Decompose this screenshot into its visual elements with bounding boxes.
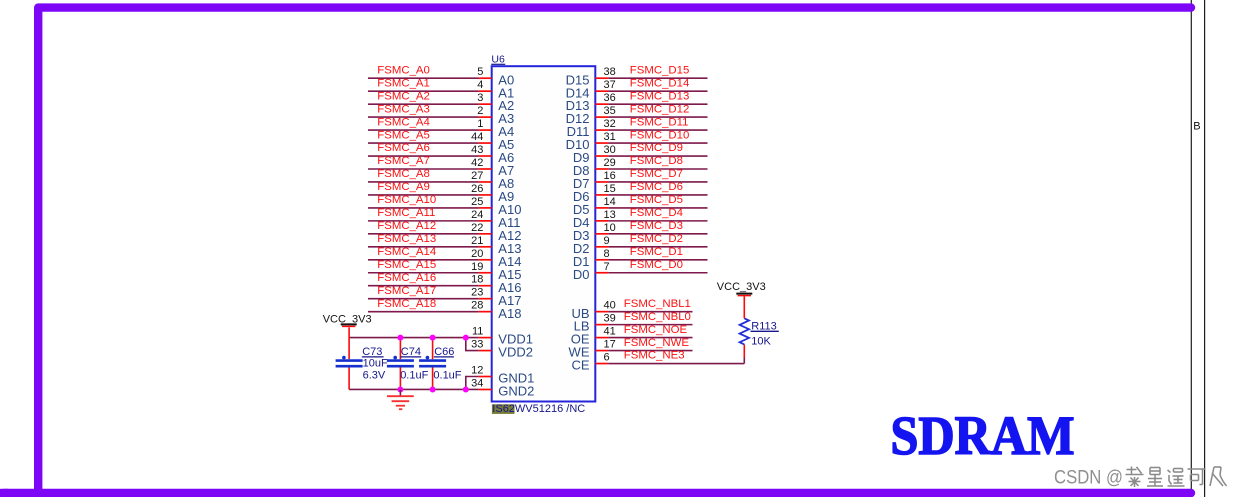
svg-text:GND2: GND2 [498, 384, 534, 399]
pin 21 stub (A13) [479, 246, 492, 248]
pin 6 stub (CE) [595, 363, 608, 365]
svg-text:FSMC_A14: FSMC_A14 [377, 246, 436, 258]
pin 7 stub (D0) [595, 272, 608, 274]
pin 10 stub (D3) [595, 233, 608, 235]
svg-text:26: 26 [471, 183, 483, 195]
svg-text:37: 37 [604, 79, 616, 91]
pin 29 stub (D8) [595, 168, 608, 170]
svg-text:FSMC_NWE: FSMC_NWE [624, 337, 690, 349]
wire net FSMC_D4 [608, 220, 707, 222]
svg-text:FSMC_D9: FSMC_D9 [630, 142, 683, 154]
svg-text:FSMC_D7: FSMC_D7 [630, 168, 683, 180]
ground symbol [399, 389, 401, 395]
wire net FSMC_D13 [608, 103, 707, 105]
pin 13 stub (D4) [595, 220, 608, 222]
svg-text:30: 30 [604, 144, 616, 156]
watermark CJK glyphs [1127, 469, 1137, 471]
pin 26 stub (A9) [479, 194, 492, 196]
svg-text:44: 44 [471, 131, 483, 143]
svg-text:FSMC_D1: FSMC_D1 [630, 246, 683, 258]
pin 20 stub (A14) [479, 259, 492, 261]
pin 37 stub (D14) [595, 90, 608, 92]
svg-text:FSMC_NBL0: FSMC_NBL0 [624, 311, 691, 323]
svg-text:11: 11 [472, 326, 483, 338]
pin 2 stub (A3) [479, 116, 492, 118]
resistor R113 [743, 344, 745, 357]
wire net FSMC_D7 [608, 181, 707, 183]
pin 15 stub (D6) [595, 194, 608, 196]
pin 35 stub (D12) [595, 116, 608, 118]
svg-text:FSMC_A0: FSMC_A0 [377, 64, 430, 76]
svg-text:5: 5 [477, 66, 483, 78]
svg-text:FSMC_D15: FSMC_D15 [630, 64, 690, 76]
svg-text:FSMC_A15: FSMC_A15 [377, 259, 436, 271]
pin 44 stub (A5) [479, 142, 492, 144]
svg-text:FSMC_D11: FSMC_D11 [630, 116, 689, 128]
pin 36 stub (D13) [595, 103, 608, 105]
pin 1 stub (A4) [479, 129, 492, 131]
pin 14 stub (D5) [595, 207, 608, 209]
svg-text:19: 19 [471, 261, 483, 273]
wire net FSMC_A14 [368, 259, 479, 261]
svg-text:38: 38 [604, 66, 616, 78]
svg-text:FSMC_A3: FSMC_A3 [377, 103, 430, 115]
svg-text:FSMC_A18: FSMC_A18 [377, 298, 436, 310]
svg-text:41: 41 [604, 326, 616, 338]
pin 12 stub (GND1) [479, 376, 492, 378]
wire net FSMC_A9 [368, 194, 479, 196]
svg-text:31: 31 [604, 131, 616, 143]
svg-text:FSMC_A2: FSMC_A2 [377, 90, 430, 102]
svg-text:13: 13 [604, 209, 616, 221]
wire net FSMC_A3 [368, 116, 479, 118]
pin 42 stub (A7) [479, 168, 492, 170]
svg-text:FSMC_A1: FSMC_A1 [377, 77, 430, 89]
svg-text:28: 28 [471, 300, 483, 312]
svg-text:SDRAM: SDRAM [891, 406, 1075, 467]
wire net FSMC_A18 [368, 311, 479, 313]
wire net FSMC_A17 [368, 298, 479, 300]
svg-text:8: 8 [604, 248, 610, 260]
wire net FSMC_A15 [368, 272, 479, 274]
wire net FSMC_A16 [368, 285, 479, 287]
pin 19 stub (A15) [479, 272, 492, 274]
svg-text:4: 4 [477, 79, 483, 91]
svg-text:10uF: 10uF [363, 357, 388, 369]
svg-text:FSMC_A17: FSMC_A17 [377, 285, 436, 297]
pin 31 stub (D10) [595, 142, 608, 144]
wire net FSMC_D1 [608, 259, 707, 261]
svg-text:FSMC_A4: FSMC_A4 [377, 116, 430, 128]
svg-text:43: 43 [471, 144, 483, 156]
svg-text:2: 2 [477, 105, 483, 117]
svg-text:FSMC_A10: FSMC_A10 [377, 194, 436, 206]
svg-text:10K: 10K [751, 335, 771, 347]
svg-text:B: B [1193, 121, 1200, 133]
pin 22 stub (A12) [479, 233, 492, 235]
svg-text:22: 22 [471, 222, 483, 234]
pin 43 stub (A6) [479, 155, 492, 157]
wire GND rail to GND2 pin [349, 388, 479, 390]
svg-text:FSMC_D5: FSMC_D5 [630, 194, 683, 206]
svg-text:FSMC_D0: FSMC_D0 [630, 259, 683, 271]
wire net FSMC_D3 [608, 233, 707, 235]
part value IS62WV51216 /NC with IS62 highlighted [492, 404, 515, 414]
svg-text:D0: D0 [573, 267, 590, 282]
svg-text:15: 15 [604, 183, 616, 195]
pin 32 stub (D11) [595, 129, 608, 131]
svg-text:CE: CE [571, 358, 589, 373]
pin 39 stub (LB) [595, 324, 608, 326]
wire net FSMC_NBL1 [608, 311, 692, 313]
wire net FSMC_D2 [608, 246, 707, 248]
svg-text:FSMC_D2: FSMC_D2 [630, 233, 683, 245]
wire net FSMC_NBL0 [608, 324, 692, 326]
wire net FSMC_A1 [368, 90, 479, 92]
pin 11 stub (VDD1) [479, 337, 492, 339]
wire net FSMC_A8 [368, 181, 479, 183]
svg-text:29: 29 [604, 157, 616, 169]
wire net FSMC_A6 [368, 155, 479, 157]
svg-text:VCC_3V3: VCC_3V3 [717, 281, 766, 293]
wire net FSMC_A0 [368, 77, 479, 79]
svg-text:FSMC_A7: FSMC_A7 [377, 155, 430, 167]
svg-text:IS62WV51216 /NC: IS62WV51216 /NC [492, 403, 585, 415]
svg-text:FSMC_A6: FSMC_A6 [377, 142, 430, 154]
pin 5 stub (A0) [479, 77, 492, 79]
svg-text:0.1uF: 0.1uF [433, 370, 461, 382]
svg-text:21: 21 [471, 235, 483, 247]
pin 27 stub (A8) [479, 181, 492, 183]
svg-text:34: 34 [471, 377, 483, 389]
pin 34 stub (GND2) [479, 388, 492, 390]
pin 40 stub (UB) [595, 311, 608, 313]
svg-text:0.1uF: 0.1uF [400, 370, 428, 382]
svg-text:FSMC_NOE: FSMC_NOE [624, 324, 688, 336]
pin 33 stub (VDD2) [479, 350, 492, 352]
wire net FSMC_D6 [608, 194, 707, 196]
svg-text:FSMC_A9: FSMC_A9 [377, 181, 430, 193]
svg-text:FSMC_D10: FSMC_D10 [630, 129, 690, 141]
wire hook to GND1 pin 12 [466, 377, 479, 390]
wire net FSMC_D9 [608, 155, 707, 157]
svg-text:VDD2: VDD2 [498, 345, 533, 360]
wire net FSMC_D8 [608, 168, 707, 170]
wire net FSMC_A13 [368, 246, 479, 248]
svg-text:17: 17 [604, 339, 616, 351]
junction dots on VCC rail [397, 335, 403, 341]
wire net FSMC_A12 [368, 233, 479, 235]
svg-text:6: 6 [604, 352, 610, 364]
svg-text:FSMC_D3: FSMC_D3 [630, 220, 683, 232]
wire net FSMC_D14 [608, 90, 707, 92]
pin 9 stub (D2) [595, 246, 608, 248]
wire net FSMC_D0 [608, 272, 707, 274]
svg-text:A18: A18 [498, 306, 521, 321]
svg-text:10: 10 [604, 222, 616, 234]
svg-text:FSMC_A8: FSMC_A8 [377, 168, 430, 180]
svg-text:9: 9 [604, 235, 610, 247]
svg-text:FSMC_D4: FSMC_D4 [630, 207, 683, 219]
wire CE to R113 [743, 358, 745, 364]
capacitor C66 [432, 338, 434, 360]
pin 24 stub (A11) [479, 220, 492, 222]
wire net FSMC_NWE [608, 350, 692, 352]
wire net FSMC_NOE [608, 337, 692, 339]
pin 30 stub (D9) [595, 155, 608, 157]
svg-text:FSMC_NBL1: FSMC_NBL1 [624, 298, 691, 310]
pin 4 stub (A1) [479, 90, 492, 92]
IC U6 body (IS62WV51216) [492, 66, 596, 401]
pin 23 stub (A17) [479, 298, 492, 300]
svg-text:FSMC_D13: FSMC_D13 [630, 90, 690, 102]
svg-text:16: 16 [604, 170, 616, 182]
svg-text:27: 27 [471, 170, 483, 182]
svg-text:36: 36 [604, 92, 616, 104]
svg-text:40: 40 [604, 300, 616, 312]
pin 16 stub (D7) [595, 181, 608, 183]
svg-text:14: 14 [604, 196, 616, 208]
svg-text:FSMC_A5: FSMC_A5 [377, 129, 430, 141]
pin 25 stub (A10) [479, 207, 492, 209]
svg-text:18: 18 [471, 274, 483, 286]
svg-text:32: 32 [604, 118, 616, 130]
pin 28 stub (A18) [479, 311, 492, 313]
wire net FSMC_D15 [608, 77, 707, 79]
svg-text:FSMC_NE3: FSMC_NE3 [624, 350, 685, 362]
wire net FSMC_A2 [368, 103, 479, 105]
svg-text:24: 24 [471, 209, 483, 221]
svg-text:7: 7 [604, 261, 610, 273]
svg-text:FSMC_A16: FSMC_A16 [377, 272, 436, 284]
pin 17 stub (WE) [595, 350, 608, 352]
svg-text:39: 39 [604, 313, 616, 325]
wire net FSMC_D10 [608, 142, 707, 144]
capacitor C73 [348, 338, 350, 360]
wire net FSMC_A10 [368, 207, 479, 209]
pin 38 stub (D15) [595, 77, 608, 79]
svg-text:35: 35 [604, 105, 616, 117]
svg-text:FSMC_A11: FSMC_A11 [377, 207, 435, 219]
svg-text:12: 12 [471, 365, 483, 377]
svg-text:FSMC_A13: FSMC_A13 [377, 233, 436, 245]
svg-text:FSMC_D14: FSMC_D14 [630, 77, 690, 89]
pin 3 stub (A2) [479, 103, 492, 105]
svg-text:CSDN @: CSDN @ [1054, 467, 1123, 489]
svg-text:23: 23 [471, 287, 483, 299]
wire hook to VDD2 pin 33 [466, 338, 479, 351]
wire net FSMC_A4 [368, 129, 479, 131]
junction dots on GND rail [397, 386, 403, 392]
capacitor C74 [399, 338, 401, 360]
wire net FSMC_NE3 [608, 363, 744, 365]
svg-text:FSMC_D6: FSMC_D6 [630, 181, 683, 193]
svg-text:3: 3 [477, 92, 483, 104]
svg-text:6.3V: 6.3V [363, 370, 386, 382]
svg-text:FSMC_A12: FSMC_A12 [377, 220, 436, 232]
pin 8 stub (D1) [595, 259, 608, 261]
svg-text:25: 25 [471, 196, 483, 208]
wire net FSMC_D12 [608, 116, 707, 118]
svg-text:1: 1 [477, 118, 483, 130]
svg-text:42: 42 [471, 157, 483, 169]
wire net FSMC_D5 [608, 207, 707, 209]
svg-text:FSMC_D8: FSMC_D8 [630, 155, 683, 167]
wire VCC rail to VDD1 pin [349, 337, 479, 339]
svg-text:FSMC_D12: FSMC_D12 [630, 103, 690, 115]
wire net FSMC_A11 [368, 220, 479, 222]
wire net FSMC_A7 [368, 168, 479, 170]
wire net FSMC_D11 [608, 129, 707, 131]
svg-text:33: 33 [471, 339, 483, 351]
wire net FSMC_A5 [368, 142, 479, 144]
svg-text:20: 20 [471, 248, 483, 260]
pin 18 stub (A16) [479, 285, 492, 287]
pin 41 stub (OE) [595, 337, 608, 339]
